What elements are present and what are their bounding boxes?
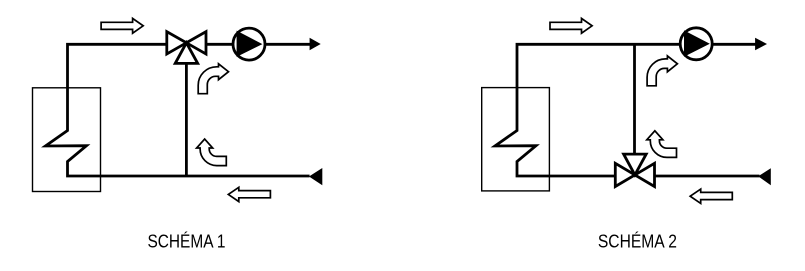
3-way valve V1 bottom triangle [175,43,198,64]
flow arrow bottom (schema 1) [228,187,270,201]
supply outlet arrowhead (schema 2) [755,38,767,51]
boiler B1 [33,88,101,192]
boiler B2 [482,88,550,191]
svg-text:SCHÉMA 1: SCHÉMA 1 [148,232,226,252]
supply outlet pipe (schema 2) [712,43,757,46]
supply outlet pipe (schema 1) [265,43,312,46]
flow arrow top (schema 1) [101,18,143,33]
flow arrow top (schema 2) [550,18,592,33]
supply outlet arrowhead (schema 1) [310,38,321,51]
pump P1 circle [233,28,265,60]
3-way valve V1 right triangle [186,32,206,54]
flow arrow bottom (schema 2) [690,189,732,203]
pump P2 rotor triangle [684,30,710,56]
3-way valve V2 top triangle [624,154,647,175]
curved mixing arrow upper (schema 1) [198,64,228,94]
curved mixing arrow lower (schema 2) [647,131,677,158]
3-way valve V1 left triangle [167,32,187,54]
pump P2 circle [680,28,712,60]
supply pipe with boiler zigzag (schema 2) [495,44,679,176]
3-way valve V2 right triangle [635,163,655,186]
return pipe arrowhead (schema 2) [758,168,771,185]
pump P1 rotor triangle [237,31,263,57]
curved mixing arrow lower (schema 1) [197,139,227,166]
svg-text:SCHÉMA 2: SCHÉMA 2 [598,232,677,252]
pipe valve V1 to pump P1 [206,43,233,46]
supply pipe with boiler zigzag (schema 1) [46,44,310,176]
vertical valve branch pipe (schema 1) [185,63,188,177]
return pipe arrowhead (schema 1) [309,168,322,185]
curved mixing arrow upper (schema 2) [647,56,677,86]
return pipe (schema 2) [655,175,760,178]
3-way valve V2 left triangle [615,163,635,186]
vertical valve branch pipe (schema 2) [633,44,636,155]
